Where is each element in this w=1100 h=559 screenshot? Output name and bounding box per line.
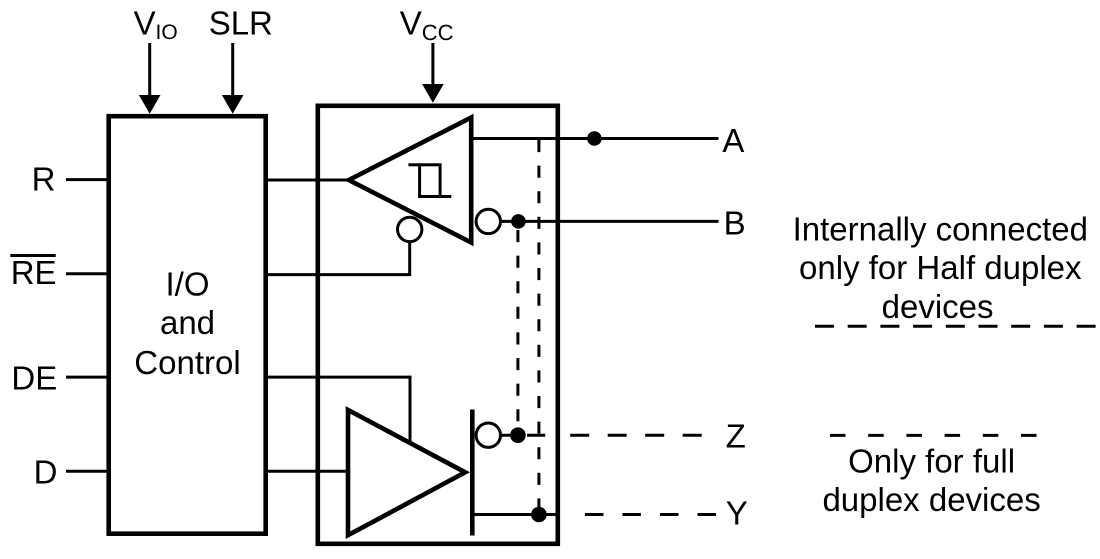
svg-text:IO: IO [156,21,178,44]
svg-text:and: and [160,304,215,341]
svg-text:only for Half duplex: only for Half duplex [799,249,1082,286]
svg-text:Internally connected: Internally connected [793,211,1088,248]
svg-text:RE: RE [11,254,57,291]
svg-text:D: D [34,453,58,490]
svg-text:I/O: I/O [165,265,209,302]
svg-text:Only for full: Only for full [848,442,1015,479]
svg-text:Control: Control [134,344,240,381]
svg-text:Y: Y [726,495,748,532]
svg-text:Z: Z [726,418,746,455]
svg-text:R: R [32,160,56,197]
svg-text:CC: CC [422,20,454,45]
svg-text:V: V [400,5,422,42]
svg-text:duplex devices: duplex devices [822,481,1040,518]
svg-text:V: V [134,5,156,42]
svg-text:SLR: SLR [209,5,273,42]
svg-text:B: B [724,205,746,242]
svg-text:A: A [722,122,744,159]
svg-text:DE: DE [11,359,57,396]
svg-text:devices: devices [882,288,994,325]
